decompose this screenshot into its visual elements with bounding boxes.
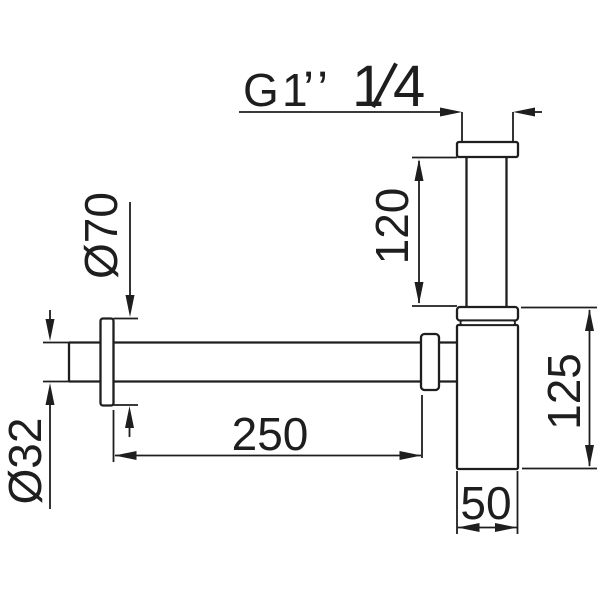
svg-text:125: 125 [538, 353, 590, 430]
dimension 125 [521, 308, 597, 469]
dimension line 120 [418, 161, 420, 303]
svg-text:50: 50 [460, 477, 511, 529]
compression nut at body inlet [421, 334, 439, 390]
svg-text:120: 120 [366, 188, 418, 265]
extension line 125 bottom [522, 468, 597, 470]
extension line G right [512, 112, 514, 142]
trap body [457, 325, 518, 469]
leader line for G thread [239, 111, 444, 113]
extension line D70 top [114, 318, 139, 320]
extension line 50 right [517, 471, 519, 534]
dimension 50 [457, 471, 518, 534]
dimension diameter 32 [0, 310, 69, 509]
arrow 50 left [458, 523, 480, 532]
right stub line for G thread [531, 111, 542, 113]
extension line 120 bottom [412, 305, 457, 307]
arrow 50 right [495, 523, 517, 532]
dimension line 125 [589, 310, 591, 466]
arrow 125 bottom [585, 445, 594, 467]
arrow D32 up [46, 383, 55, 405]
dimension 120 [366, 158, 457, 307]
collar lip [461, 321, 516, 326]
body collar nut [457, 307, 518, 321]
extension line D70 bottom [114, 404, 139, 406]
top connection flange [457, 142, 518, 157]
arrow D32 down [46, 319, 55, 341]
extension line 50 left [456, 471, 458, 534]
dimension diameter 70 [75, 192, 138, 437]
vertical outlet tube [467, 157, 507, 307]
arrow 120 top [415, 159, 424, 181]
extension line 250 right [421, 395, 423, 458]
stem D32 bottom [49, 401, 51, 509]
stem D32 top [49, 310, 51, 323]
extension line D32 bottom [43, 381, 69, 383]
dimension 250 [114, 395, 423, 462]
leader line D70 [129, 202, 131, 300]
dimension line 250 [115, 455, 421, 457]
svg-text:Ø32: Ø32 [0, 418, 51, 505]
extension line 250 left [113, 410, 115, 462]
arrow 250 right [400, 451, 422, 460]
wall flange escutcheon [101, 319, 114, 406]
extension line 125 top [521, 307, 597, 309]
arrow D70 down [126, 295, 135, 317]
svg-text:Ø70: Ø70 [75, 192, 127, 279]
horizontal inlet pipe [69, 343, 457, 382]
extension line G left [461, 112, 463, 142]
arrow 120 bottom [415, 282, 424, 304]
dimension line 50 [458, 527, 517, 529]
stem D70 bottom [129, 424, 131, 437]
arrow D70 up [125, 406, 134, 428]
svg-text:250: 250 [232, 408, 309, 460]
extension line D32 top [43, 342, 69, 344]
leader arrow right [440, 108, 462, 117]
extension line 120 top [412, 157, 457, 159]
fraction slash of 1/4 [373, 64, 396, 108]
arrow 250 left [115, 451, 137, 460]
arrow 125 top [585, 309, 594, 331]
right stub arrow [513, 108, 535, 117]
